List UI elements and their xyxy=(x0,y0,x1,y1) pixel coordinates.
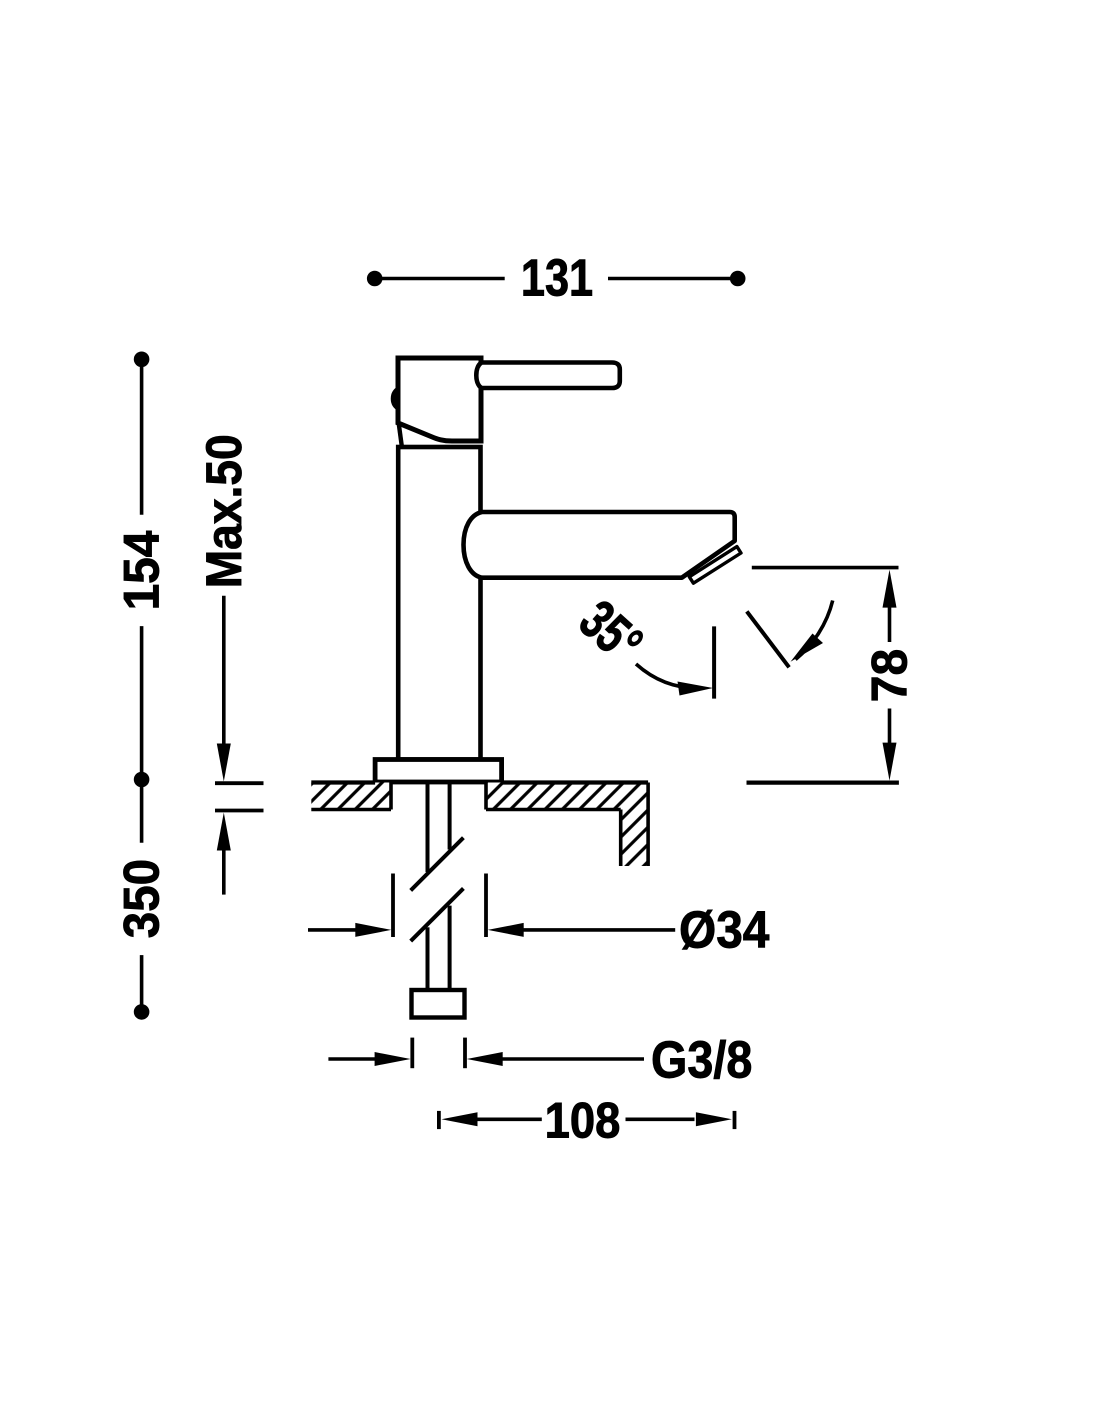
O34 right arrow line xyxy=(521,928,675,932)
mixer head xyxy=(398,358,481,441)
dimension 78 up arrowhead xyxy=(883,570,897,608)
svg-text:131: 131 xyxy=(521,250,593,308)
left counter underside xyxy=(311,808,391,812)
supply shank lower right edge xyxy=(448,906,452,990)
svg-text:78: 78 xyxy=(862,649,918,702)
countertop surface line left xyxy=(311,780,375,784)
Max.50 lower leader line xyxy=(222,849,226,895)
svg-text:154: 154 xyxy=(114,530,170,610)
108 right line xyxy=(626,1118,695,1122)
Max.50 upper tick xyxy=(215,781,264,785)
svg-text:Max.50: Max.50 xyxy=(196,434,252,588)
svg-text:108: 108 xyxy=(545,1093,621,1149)
dimension 131 line left xyxy=(375,277,505,281)
supply shank upper left edge xyxy=(426,782,430,872)
Max.50 down arrowhead xyxy=(217,744,231,782)
dimension O34 left tick xyxy=(391,874,395,938)
dimension 131 line right xyxy=(608,277,738,281)
G3/8 right arrowhead xyxy=(467,1052,503,1066)
aerator xyxy=(689,547,741,584)
108 right arrowhead xyxy=(696,1112,732,1126)
svg-text:G3/8: G3/8 xyxy=(651,1032,752,1090)
O34 left arrow line xyxy=(308,928,358,932)
dimension 78 line upper xyxy=(888,606,892,642)
right counter underside xyxy=(486,808,621,812)
hole left wall xyxy=(389,783,393,810)
G3/8 right arrow line xyxy=(500,1057,644,1061)
35deg right arc xyxy=(796,601,833,660)
dimension 78 line lower xyxy=(888,709,892,745)
dimension 131 dot right xyxy=(730,271,746,287)
dimension 154/350 vertical line seg1 xyxy=(140,359,144,515)
G3/8 left arrow line xyxy=(328,1057,377,1061)
G3/8 left arrowhead xyxy=(375,1052,411,1066)
spout xyxy=(464,512,735,578)
dimension O34 right tick xyxy=(484,874,488,938)
dimension G3/8 left tick xyxy=(410,1038,414,1069)
dimension dot bottom xyxy=(134,1004,150,1020)
break line lower xyxy=(411,888,464,941)
35deg left arc arrowhead xyxy=(678,682,714,696)
supply shank upper right edge xyxy=(448,782,452,850)
dimension 78 bottom line xyxy=(747,780,899,784)
35deg left arc xyxy=(636,664,702,688)
mounting nut xyxy=(412,990,465,1018)
head bottom tilt line xyxy=(399,424,402,447)
svg-text:350: 350 xyxy=(114,859,170,938)
countertop surface line right xyxy=(502,780,648,784)
35 degree reference tick xyxy=(712,626,716,698)
countertop hatch left xyxy=(311,783,391,810)
dimension 78 top line xyxy=(752,566,899,570)
dimension 78 down arrowhead xyxy=(883,743,897,781)
lever handle xyxy=(476,363,620,389)
dimension 154/350 vertical line seg2 xyxy=(140,626,144,843)
countertop hatch right L-shape xyxy=(486,783,648,867)
35deg right arc arrowhead xyxy=(791,634,824,662)
dimension dot top xyxy=(134,352,150,368)
svg-text:Ø34: Ø34 xyxy=(679,902,769,960)
dimension G3/8 right tick xyxy=(463,1038,467,1069)
108 left line xyxy=(475,1118,542,1122)
counter inner edge vertical xyxy=(619,810,623,867)
dimension 108 left tick xyxy=(437,1111,441,1129)
Max.50 upper leader line xyxy=(222,596,226,745)
Max.50 up arrowhead xyxy=(217,813,231,851)
dimension 154/350 vertical line seg3 xyxy=(140,955,144,1012)
base flange xyxy=(375,760,502,783)
faucet body column xyxy=(398,447,480,760)
O34 right arrowhead xyxy=(488,923,524,937)
108 left arrowhead xyxy=(442,1112,478,1126)
temperature screw bulge xyxy=(392,387,399,411)
35 degree stream line xyxy=(747,611,789,667)
dimension 131 dot left xyxy=(367,271,383,287)
Max.50 lower tick xyxy=(215,809,264,813)
dimension 108 right tick xyxy=(733,1111,737,1129)
break line upper xyxy=(411,838,464,891)
O34 left arrowhead xyxy=(355,923,391,937)
counter outer edge vertical xyxy=(646,783,650,867)
dimension dot middle xyxy=(134,772,150,788)
supply shank lower left edge xyxy=(426,927,430,990)
hole right wall xyxy=(484,783,488,810)
